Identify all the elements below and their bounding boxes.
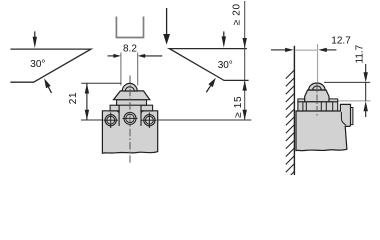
roller inner arc side view [313, 86, 322, 90]
flange slot ticks [303, 102, 333, 111]
clearance dimension line (vertical at x=244.7) [244, 1, 246, 120]
cam yoke U bracket above plunger [116, 17, 143, 38]
svg-text:21: 21 [68, 92, 79, 105]
center line right switch [316, 83, 318, 116]
dimension >=20 arrow [243, 38, 247, 48]
dimension 8.2 arrows [108, 54, 163, 58]
dimension 12.7 right arrow [318, 48, 336, 52]
wall hatching [286, 70, 295, 180]
central block sides [119, 105, 141, 126]
switch body side view [296, 104, 351, 150]
head trapezoid [114, 91, 150, 100]
svg-text:30°: 30° [218, 60, 233, 71]
dimension 12.7 left arrow [271, 48, 294, 52]
svg-text:≥ 15: ≥ 15 [233, 96, 244, 118]
head plate right part [141, 105, 153, 111]
dimension 21 line with arrows [85, 83, 89, 120]
dimension 12.7 line (gray) [295, 49, 317, 51]
screw middle [123, 112, 138, 124]
svg-text:30°: 30° [30, 59, 45, 70]
switch body front view [102, 111, 157, 153]
svg-text:≥ 20: ≥ 20 [231, 3, 242, 25]
head plate left part [110, 105, 119, 111]
wall line right figure [293, 46, 295, 175]
svg-text:11.7: 11.7 [354, 44, 365, 63]
cam profile left (30 deg ramp) [10, 49, 91, 82]
plunger dome [122, 83, 137, 91]
svg-text:8.2: 8.2 [123, 44, 137, 55]
cover tab strip [351, 108, 353, 125]
approach arrow down middle [163, 8, 170, 45]
dimension >=15 arrows [243, 80, 247, 120]
front channel fillet left [116, 111, 119, 114]
central block fill [120, 105, 141, 125]
cam profile middle-right (mirrored 30 deg ramp) [169, 49, 248, 81]
cover tab inner line [341, 112, 346, 125]
screw right [142, 113, 157, 129]
dimension 8.2 extension lines [121, 53, 138, 86]
head flange side view [298, 102, 338, 111]
roller inner arc [125, 87, 134, 91]
front channel fillet right [141, 111, 144, 114]
extension line screw level right [158, 119, 252, 121]
dimension 21 extension lines [81, 83, 122, 120]
head collar [117, 100, 147, 106]
approach arrow down onto mirrored cam [222, 31, 226, 47]
plunger dome side view [309, 83, 326, 90]
dimension 11.7 bottom extension (gray) [331, 100, 371, 102]
dimension 11.7 arrows [364, 64, 368, 117]
ramp arrow left (pointing at ramp) [44, 78, 51, 93]
approach arrow down onto left cam [33, 31, 37, 48]
dimension 12.7 extension (plunger center) [317, 44, 319, 82]
dimension 11.7 top extension [324, 81, 370, 83]
ramp arrow middle (pointing at ramp) [206, 78, 216, 93]
screw left [104, 113, 119, 129]
flange lip left [298, 99, 305, 102]
center line middle switch [129, 76, 131, 165]
svg-text:12.7: 12.7 [331, 35, 351, 46]
flange lip right [329, 99, 338, 102]
head trapezoid side view [305, 90, 329, 102]
